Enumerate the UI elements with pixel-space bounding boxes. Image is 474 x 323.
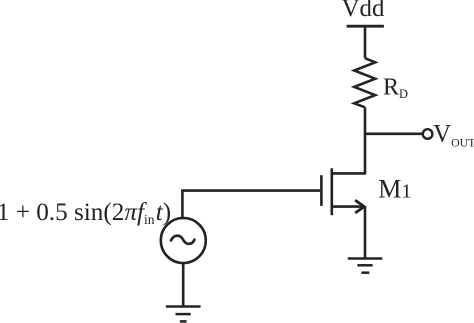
svg-text:1 + 0.5 sin(2πfint): 1 + 0.5 sin(2πfint) — [0, 199, 171, 227]
wire gate of M1 to input source — [182, 191, 320, 218]
transistor M1 source arrow — [355, 200, 364, 213]
ground input source bar2 — [176, 313, 191, 316]
ground input source bar3 — [180, 320, 187, 323]
svg-text:M1: M1 — [378, 174, 411, 203]
ground M1 source bar1 — [348, 257, 383, 260]
transistor M1 gate bar — [320, 175, 323, 206]
wire M1 source to ground — [364, 207, 367, 259]
transistor M1 source lead — [332, 205, 365, 208]
resistor RD — [354, 58, 375, 107]
svg-text:Vdd: Vdd — [342, 0, 385, 22]
wire output node to drain of M1 — [364, 134, 367, 175]
transistor M1 channel bar — [330, 168, 333, 215]
voltage source sine symbol — [171, 236, 194, 244]
svg-text:VOUT: VOUT — [433, 121, 474, 150]
wire output node to Vout terminal — [365, 133, 422, 136]
wire resistor bottom to output node — [364, 107, 367, 133]
svg-text:RD: RD — [383, 75, 408, 101]
ground M1 source bar3 — [361, 271, 369, 274]
voltage source Vin circle — [161, 218, 206, 263]
terminal Vout open circle — [423, 129, 433, 139]
ground M1 source bar2 — [357, 264, 372, 267]
wire Vdd rail to resistor R1 top — [364, 26, 367, 58]
supply rail Vdd — [347, 25, 384, 28]
transistor M1 drain lead — [332, 172, 365, 175]
ground input source bar1 — [166, 305, 201, 308]
wire input source to ground — [182, 263, 185, 306]
